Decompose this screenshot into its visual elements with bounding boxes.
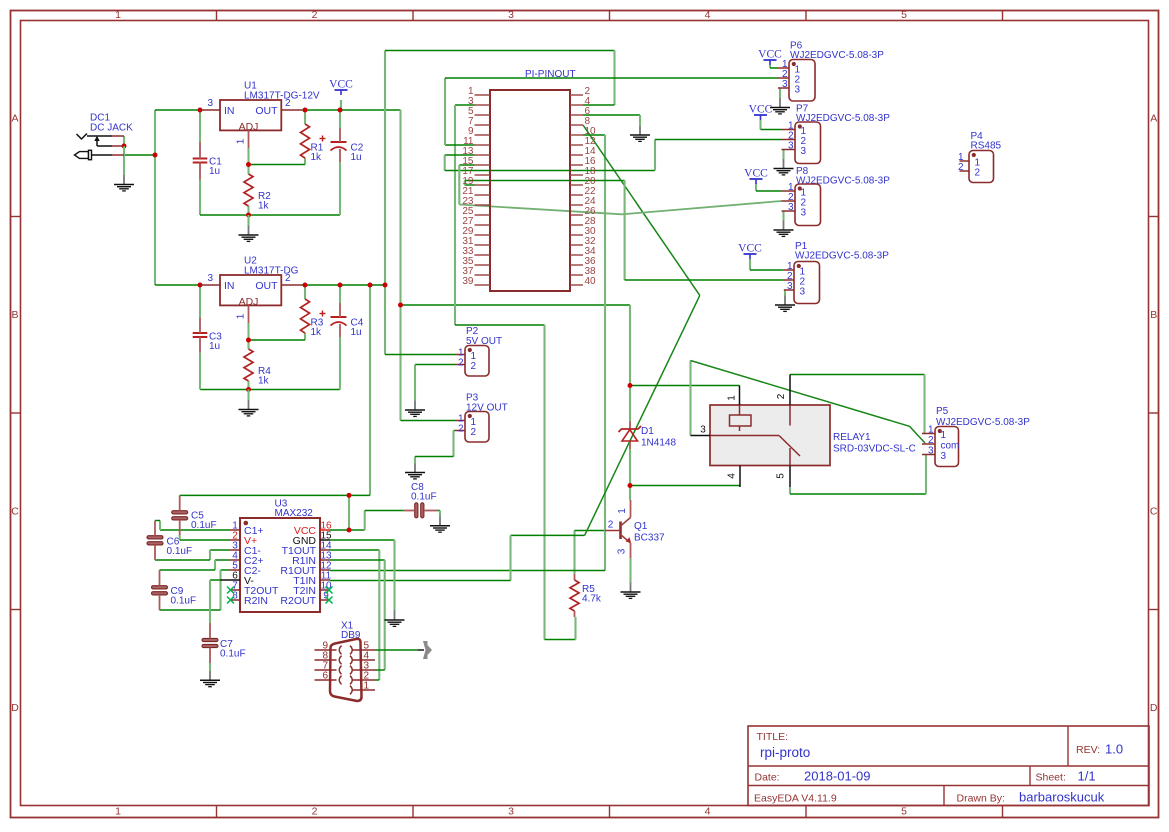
wire relay pin4 to Q1 collector node [630,485,740,487]
svg-text:1: 1 [236,313,247,319]
pin P4-1 [960,160,970,162]
wire U3 pin16 VCC row [330,529,365,531]
wire U1 ADJ [247,148,249,174]
svg-text:2: 2 [312,9,318,21]
wire R2 bottom to rail [247,206,249,215]
pin PI-17 [475,174,491,176]
svg-text:barbaroskucuk: barbaroskucuk [1019,790,1105,805]
wire PI pin19 to P1 pin2 [465,184,475,186]
svg-text:3: 3 [508,9,514,21]
pin U3-13 R1IN [320,559,330,561]
node D1 anode / Q1 collector / relay pin4 [628,483,633,488]
pin U3-8 R2IN [230,599,240,601]
wire D1 bottom lead [629,449,631,486]
node U3 pin16 [347,528,352,533]
svg-text:2: 2 [975,168,981,179]
wire VCC to P1 pin1 [749,259,751,270]
wire C4 bottom lead [339,337,341,390]
svg-text:1: 1 [617,508,628,514]
svg-text:BC337: BC337 [634,533,665,544]
svg-text:VCC: VCC [749,104,773,116]
pin X1-1 [353,689,376,691]
svg-text:EasyEDA V4.11.9: EasyEDA V4.11.9 [754,793,837,805]
wire P2 pin2 to ground [415,364,456,366]
capacitor C4 1u polarized [331,316,347,318]
pin PI-36 [570,264,583,266]
svg-text:D: D [11,702,19,714]
wire C1 top lead [199,110,201,142]
no-connect X U3 pin8 [227,597,234,604]
svg-text:D1: D1 [641,426,654,437]
pin P6-1 [778,67,789,69]
svg-text:1u: 1u [209,166,220,177]
pin P1-3 [784,289,794,291]
pin U3-3 C1- [230,549,240,551]
svg-text:39: 39 [462,276,474,287]
title block [748,726,1149,806]
svg-text:IN: IN [224,105,235,117]
wire VCC node to C5 top [180,494,349,496]
svg-text:OUT: OUT [255,105,278,117]
pin RELAY1-1 [739,386,741,406]
svg-text:1k: 1k [258,201,270,212]
wire PI pin15 to P8 pin2 [459,164,474,166]
pin PI-23 [475,204,491,206]
pin U2-3 [200,284,220,286]
pin PI-37 [475,274,491,276]
svg-text:1: 1 [941,430,947,441]
pin RELAY1-3 [691,435,711,437]
pin PI-26 [570,214,583,216]
svg-text:VCC: VCC [744,168,768,180]
pin P3-2 [456,430,466,432]
svg-text:WJ2EDGVC-5.08-3P: WJ2EDGVC-5.08-3P [795,251,889,262]
ground PI pin6 [639,115,641,127]
svg-text:DC JACK: DC JACK [90,123,133,134]
wire node A down to U2 IN [154,155,156,285]
wire PI pin3 TXD to R5 bottom [455,104,475,106]
pin RELAY1-2 [789,375,791,406]
svg-text:B: B [11,309,18,321]
pin X1-5 [353,649,376,651]
svg-text:2: 2 [285,98,291,109]
wire VCC1 stem [340,100,342,110]
svg-text:1: 1 [928,425,934,436]
wire C4 top lead [339,285,341,303]
svg-text:1u: 1u [209,341,220,352]
pin PI-25 [475,214,491,216]
wire U3 pin4 C2+ to C9 top [215,559,230,561]
node VCC / C2 on OUT rail [338,108,343,113]
ground U3 pin15 [393,540,395,610]
capacitor C1 1u [193,158,208,160]
wire D1 node to relay pin1 [630,385,740,387]
port arrow at X1 pin5 [423,641,432,659]
wire U3 pin1 C1+ to C6 top [160,529,230,531]
svg-text:1: 1 [115,806,121,818]
svg-text:1.0: 1.0 [1105,742,1123,757]
svg-text:2: 2 [776,393,787,399]
pin PI-10 [570,134,583,136]
svg-text:3: 3 [617,548,628,554]
svg-text:2: 2 [471,361,477,372]
pin U3-15 GND [320,539,330,541]
svg-text:RELAY1: RELAY1 [833,432,871,443]
wire VCC node down to U3 pin16 [348,495,350,530]
ground U1 rail (R2) [247,215,249,226]
ground C7 [209,663,211,671]
pin U3-12 R1OUT [320,569,330,571]
svg-text:1N4148: 1N4148 [641,438,676,449]
svg-text:3: 3 [508,806,514,818]
svg-text:0.1uF: 0.1uF [220,649,246,660]
ground P8 pin3 [782,211,784,221]
pin X1-6 [315,679,337,681]
svg-text:WJ2EDGVC-5.08-3P: WJ2EDGVC-5.08-3P [796,176,890,187]
pin PI-3 [475,104,491,106]
pin U3-1 C1+ [230,529,240,531]
relay switch blade [779,436,800,457]
svg-text:3: 3 [787,281,793,292]
svg-text:Drawn By:: Drawn By: [957,793,1005,805]
pin PI-24 [570,204,583,206]
pin PI-18 [570,174,583,176]
svg-text:Date:: Date: [755,772,780,784]
svg-text:2018-01-09: 2018-01-09 [804,769,871,784]
pin U1-2 [281,109,301,111]
pin P8-2 [782,200,796,202]
svg-text:3: 3 [207,273,213,284]
pin PI-21 [475,194,491,196]
pin PI-16 [570,164,583,166]
pin P8-1 [782,190,796,192]
pin X1-2 [353,679,376,681]
wire U3 pin5 C2- to C9 bottom [221,569,231,571]
pin PI-6 [570,114,583,116]
pin PI-29 [475,234,491,236]
node ground rail U2 [246,387,251,392]
svg-text:2: 2 [928,435,934,446]
svg-text:1/1: 1/1 [1078,769,1096,784]
pin U3-14 T1OUT [320,549,330,551]
node U1 ADJ / R1 / R2 [246,162,251,167]
pin Q1-2 base [605,530,621,532]
pin U3-11 T1IN [320,579,330,581]
svg-text:D: D [1150,702,1158,714]
pin P5-2 [922,443,935,445]
wire relay pin5 to P5 pin3 [789,487,791,494]
resistor R3 1k [301,299,310,333]
ground P1 pin3 [784,291,786,296]
svg-text:1: 1 [115,9,121,21]
svg-text:1: 1 [727,395,738,401]
wire C2 top lead [339,110,341,128]
wire U2 ground rail [200,389,340,391]
svg-text:2: 2 [458,424,464,435]
wire 5V top run to PI pin4 [385,50,615,52]
svg-text:1: 1 [364,681,370,692]
svg-text:4: 4 [705,9,711,21]
capacitor C2 1u polarized [331,141,347,143]
svg-text:2: 2 [608,520,614,531]
wire C1 bottom lead [199,180,201,216]
pin PI-27 [475,224,491,226]
pin PI-4 [570,104,583,106]
node R1 top on OUT rail [303,108,308,113]
svg-text:A: A [1150,113,1157,125]
svg-text:3: 3 [801,146,807,157]
ground P6 pin3 [779,88,781,98]
pin RELAY1-4 [739,466,741,488]
wire DC jack pin1 to pin2 node [123,136,125,146]
pin P4-2 [960,170,970,172]
pin PI-14 [570,154,583,156]
node U2 ADJ / R3 / R4 [246,338,251,343]
wire D1 top lead [629,386,631,422]
pin DC1-2 [112,145,124,147]
node ground rail U1 [246,213,251,218]
wire 5V: x=385 from top down to P2 pin1 [384,51,386,355]
wire R1 bottom to ADJ node [304,158,306,165]
svg-text:VCC: VCC [758,49,782,61]
svg-text:3: 3 [788,202,794,213]
pin PI-30 [570,234,583,236]
svg-text:1: 1 [236,138,247,144]
wire C2 bottom lead [339,162,341,215]
svg-text:0.1uF: 0.1uF [191,520,217,531]
wire U3 pin13 R1IN to X1 pin3 [330,559,385,561]
node VCC net at C5 line [347,493,352,498]
svg-text:3: 3 [928,446,934,457]
node DC jack junction [122,144,127,149]
wire R4 bottom to rail [247,381,249,390]
wire PI pin10 RXD to U3 R1OUT [583,134,605,136]
pin P1-1 [784,269,794,271]
relay RELAY1 SRD-03VDC-SL-C [710,405,830,466]
svg-text:40: 40 [585,276,597,287]
svg-text:6: 6 [322,671,328,682]
no-connect X U3 pin10 [326,587,333,594]
pin P7-2 [782,139,796,141]
pin U1-1 ADJ [248,130,250,148]
pin DC1-3 [112,154,124,156]
svg-text:1k: 1k [258,376,270,387]
svg-text:3: 3 [782,79,788,90]
wire VCC to P6 pin1 [769,65,771,68]
svg-text:3: 3 [207,98,213,109]
ground P3 pin2 [414,457,416,464]
ground Q1 emitter [629,558,631,583]
wire U3 pin3 C1- to C6 bottom [210,549,230,551]
wire R5 top to Q1 base node [573,531,575,575]
ground DC jack [123,146,125,175]
pin PI-11 [475,144,491,146]
svg-text:1k: 1k [311,152,323,163]
pin U3-10 T2IN [320,589,330,591]
wire VCC to P8 pin1 [755,184,757,192]
pin PI-39 [475,284,491,286]
wire U3 pin15 GND to ground [330,539,395,541]
wire U2 OUT rail [301,284,385,286]
pin PI-35 [475,264,491,266]
pin U3-7 T2OUT [230,589,240,591]
wire U3 pin6 V- to C7 top [210,579,221,581]
wire C8 right lead to ground [438,510,440,512]
pin PI-33 [475,254,491,256]
pin U3-5 C2- [230,569,240,571]
pin Q1-3 emitter [630,543,632,558]
svg-text:0.1uF: 0.1uF [171,596,197,607]
pin P3-1 [456,420,466,422]
ground C8 [439,511,441,517]
svg-text:B: B [1150,309,1157,321]
pin PI-7 [475,124,491,126]
pin U3-9 R2OUT [320,599,330,601]
resistor R1 1k [301,124,310,158]
svg-text:0.1uF: 0.1uF [167,546,193,557]
svg-text:4: 4 [727,473,738,479]
pin PI-20 [570,184,583,186]
svg-text:com: com [941,441,960,452]
svg-text:R2OUT: R2OUT [280,595,316,607]
pin P5-3 [922,454,935,456]
svg-text:1k: 1k [311,327,323,338]
node U2 IN / C3 [198,283,203,288]
pin U2-2 [281,284,301,286]
pin U3-2 V+ [230,539,240,541]
svg-text:A: A [11,113,18,125]
wire C5 bottom to U3 pin2 V+ [179,535,181,540]
pin P6-3 [778,87,789,89]
wire U1 ground rail [200,214,340,216]
svg-text:5: 5 [901,806,907,818]
pin X1-7 [315,669,337,671]
pin P8-3 [782,210,796,212]
pin U2-1 ADJ [248,305,250,323]
svg-text:5: 5 [776,473,787,479]
resistor R5 4.7k [574,574,576,580]
wire PI pin8 diagonal to U3 T1IN [583,125,700,295]
wire R1 top [304,110,306,124]
wire VCC to P7 pin1 [759,120,761,130]
wire PI pin11 to P6 pin2 [445,144,475,146]
wire R3 bottom to ADJ node [304,333,306,340]
pin DC1-1 [112,135,124,137]
pin P5-1 [922,433,935,435]
wire C3 bottom lead [199,353,201,390]
svg-text:Q1: Q1 [634,521,648,532]
svg-text:TITLE:: TITLE: [757,731,789,743]
svg-text:4: 4 [705,806,711,818]
pin PI-2 [570,94,583,96]
pin U3-6 V- [221,579,241,581]
pin P7-3 [782,149,796,151]
wire 5V from U2 OUT down to VCC node of U3 [369,285,371,495]
svg-text:VCC: VCC [329,79,353,91]
pin PI-5 [475,114,491,116]
svg-text:C: C [11,506,19,518]
resistor R2 1k [244,174,253,206]
node P2 branch on U2 OUT rail [383,283,388,288]
pin P7-1 [782,129,796,131]
wire U1 OUT rail to corner x400 [301,109,401,111]
svg-text:2: 2 [312,806,318,818]
svg-text:3: 3 [788,141,794,152]
pin PI-28 [570,224,583,226]
pin PI-38 [570,274,583,276]
pin PI-40 [570,284,583,286]
svg-text:2: 2 [471,427,477,438]
svg-text:1u: 1u [351,327,362,338]
pin U3-4 C2+ [230,559,240,561]
svg-text:REV:: REV: [1076,744,1100,756]
pin P1-2 [784,279,794,281]
pin PI-8 [570,124,583,126]
wire 12V: x=400 down to P3 pin1 [399,110,401,421]
pin PI-12 [570,144,583,146]
pin RELAY1-5 [789,448,791,466]
node R3 top on U2 OUT rail [303,283,308,288]
wire C3 top lead [199,285,201,318]
svg-text:5: 5 [901,9,907,21]
svg-text:PI-PINOUT: PI-PINOUT [525,69,576,80]
node A jack output [153,153,158,158]
wire Q1 collector [629,486,631,501]
node 12V branch [398,303,403,308]
wire U3 pin14 T1OUT to X1 pin2 [330,549,379,551]
wire U2 ADJ [247,323,249,349]
ground P2 pin2 [414,365,416,401]
svg-text:0.1uF: 0.1uF [411,492,437,503]
node U1 IN / C1 [198,108,203,113]
pin PI-15 [475,164,491,166]
svg-text:R2IN: R2IN [244,595,268,607]
wire X1 pin5 to port arrow [375,649,418,651]
pin PI-31 [475,244,491,246]
svg-text:2: 2 [285,273,291,284]
pin X1-9 [315,649,337,651]
wire relay pin2 to P5 pin1 [790,374,925,376]
svg-text:C: C [1150,506,1158,518]
resistor R4 1k [244,349,253,381]
svg-text:OUT: OUT [255,280,278,292]
svg-text:2: 2 [458,358,464,369]
pin PI-19 [475,184,491,186]
pin X1-3 [353,669,376,671]
svg-text:rpi-proto: rpi-proto [760,745,810,760]
pin PI-32 [570,244,583,246]
capacitor C3 1u [193,332,208,334]
pin PI-22 [570,194,583,196]
pin PI-13 [475,154,491,156]
pin Q1-1 collector [630,500,632,518]
pin X1-8 [315,659,337,661]
svg-text:3: 3 [941,451,947,462]
svg-text:VCC: VCC [738,243,762,255]
no-connect X U3 pin9 [326,597,333,604]
node C4 on U2 OUT rail [338,283,343,288]
wire PI pin6 to ground [583,114,640,116]
svg-text:Sheet:: Sheet: [1036,772,1066,784]
pin PI-34 [570,254,583,256]
wire DC jack output to node A [124,154,155,156]
svg-text:1u: 1u [351,152,362,163]
svg-text:4.7k: 4.7k [582,594,602,605]
node 5V feed on U2 OUT rail [368,283,373,288]
pin P6-2 [778,77,789,79]
svg-text:SRD-03VDC-SL-C: SRD-03VDC-SL-C [833,444,916,455]
wire P3 pin2 to ground [454,430,456,432]
